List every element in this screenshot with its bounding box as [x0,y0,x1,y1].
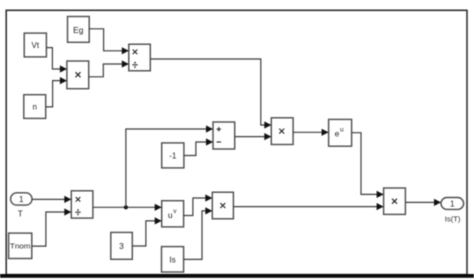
svg-text:3: 3 [119,241,124,251]
svg-text:1: 1 [450,199,455,208]
svg-text:Tnom: Tnom [10,244,31,251]
svg-text:n: n [32,103,36,112]
divide block D2 (T / Tnom) [71,191,93,218]
svg-text:Is(T): Is(T) [445,215,461,224]
product block P1 (Vt*n) [67,61,89,89]
wire Eg to D1 x-input [89,29,129,55]
svg-text:u: u [340,127,344,134]
input port 1 T [11,193,32,219]
wire -1 to sum minus-input [184,138,213,155]
wire 3 to u^v bottom input [132,217,161,246]
constant block n [24,95,46,119]
svg-text:T: T [18,209,23,218]
math function block u^v [162,201,184,227]
wire input T to D2 x-input [32,196,71,203]
wire Tnom to D2 divide-input [32,208,72,246]
sum block (+ -) [213,122,235,149]
wire Vt to P1 top input [46,48,67,73]
wire P2 to e^u input [293,129,329,136]
wire Is to P3 bottom input [184,207,213,259]
svg-text:1: 1 [19,195,24,204]
wire D1 to P2 top input [150,59,271,129]
wire P4 to output port [405,199,441,206]
product block P3 [212,192,233,219]
svg-text:u: u [168,210,173,220]
constant block Tnom [9,233,32,258]
math function block e^u [329,119,352,146]
divide block D1 (Eg / n*Vt) [129,44,151,71]
wire e^u to P4 top input [352,133,384,198]
constant block Vt [24,33,46,57]
svg-text:-1: -1 [169,151,177,160]
wire n to P1 bottom input [46,77,67,107]
wire D2 to u^v top input [93,204,162,211]
wire u^v to P3 top input [184,194,213,215]
svg-text:Vt: Vt [32,41,40,50]
constant block -1 [162,143,184,168]
constant block Is [162,247,184,272]
junction on T/Tnom net [124,205,128,209]
constant block Eg [68,17,90,43]
wire P3 to P4 bottom input [233,203,383,210]
svg-text:Eg: Eg [73,25,84,35]
svg-text:e: e [335,129,340,139]
wire junction to sum plus-input [126,125,213,207]
product block P2 [271,118,293,145]
product block P4 (final) [384,188,406,214]
bottom rule [0,274,474,278]
wire P1 to D1 divide-input [89,60,129,76]
wire sum to P2 bottom input [235,133,272,140]
svg-text:Is: Is [169,255,175,264]
constant block 3 [111,232,133,259]
output port 1 Is(T) [441,198,464,224]
